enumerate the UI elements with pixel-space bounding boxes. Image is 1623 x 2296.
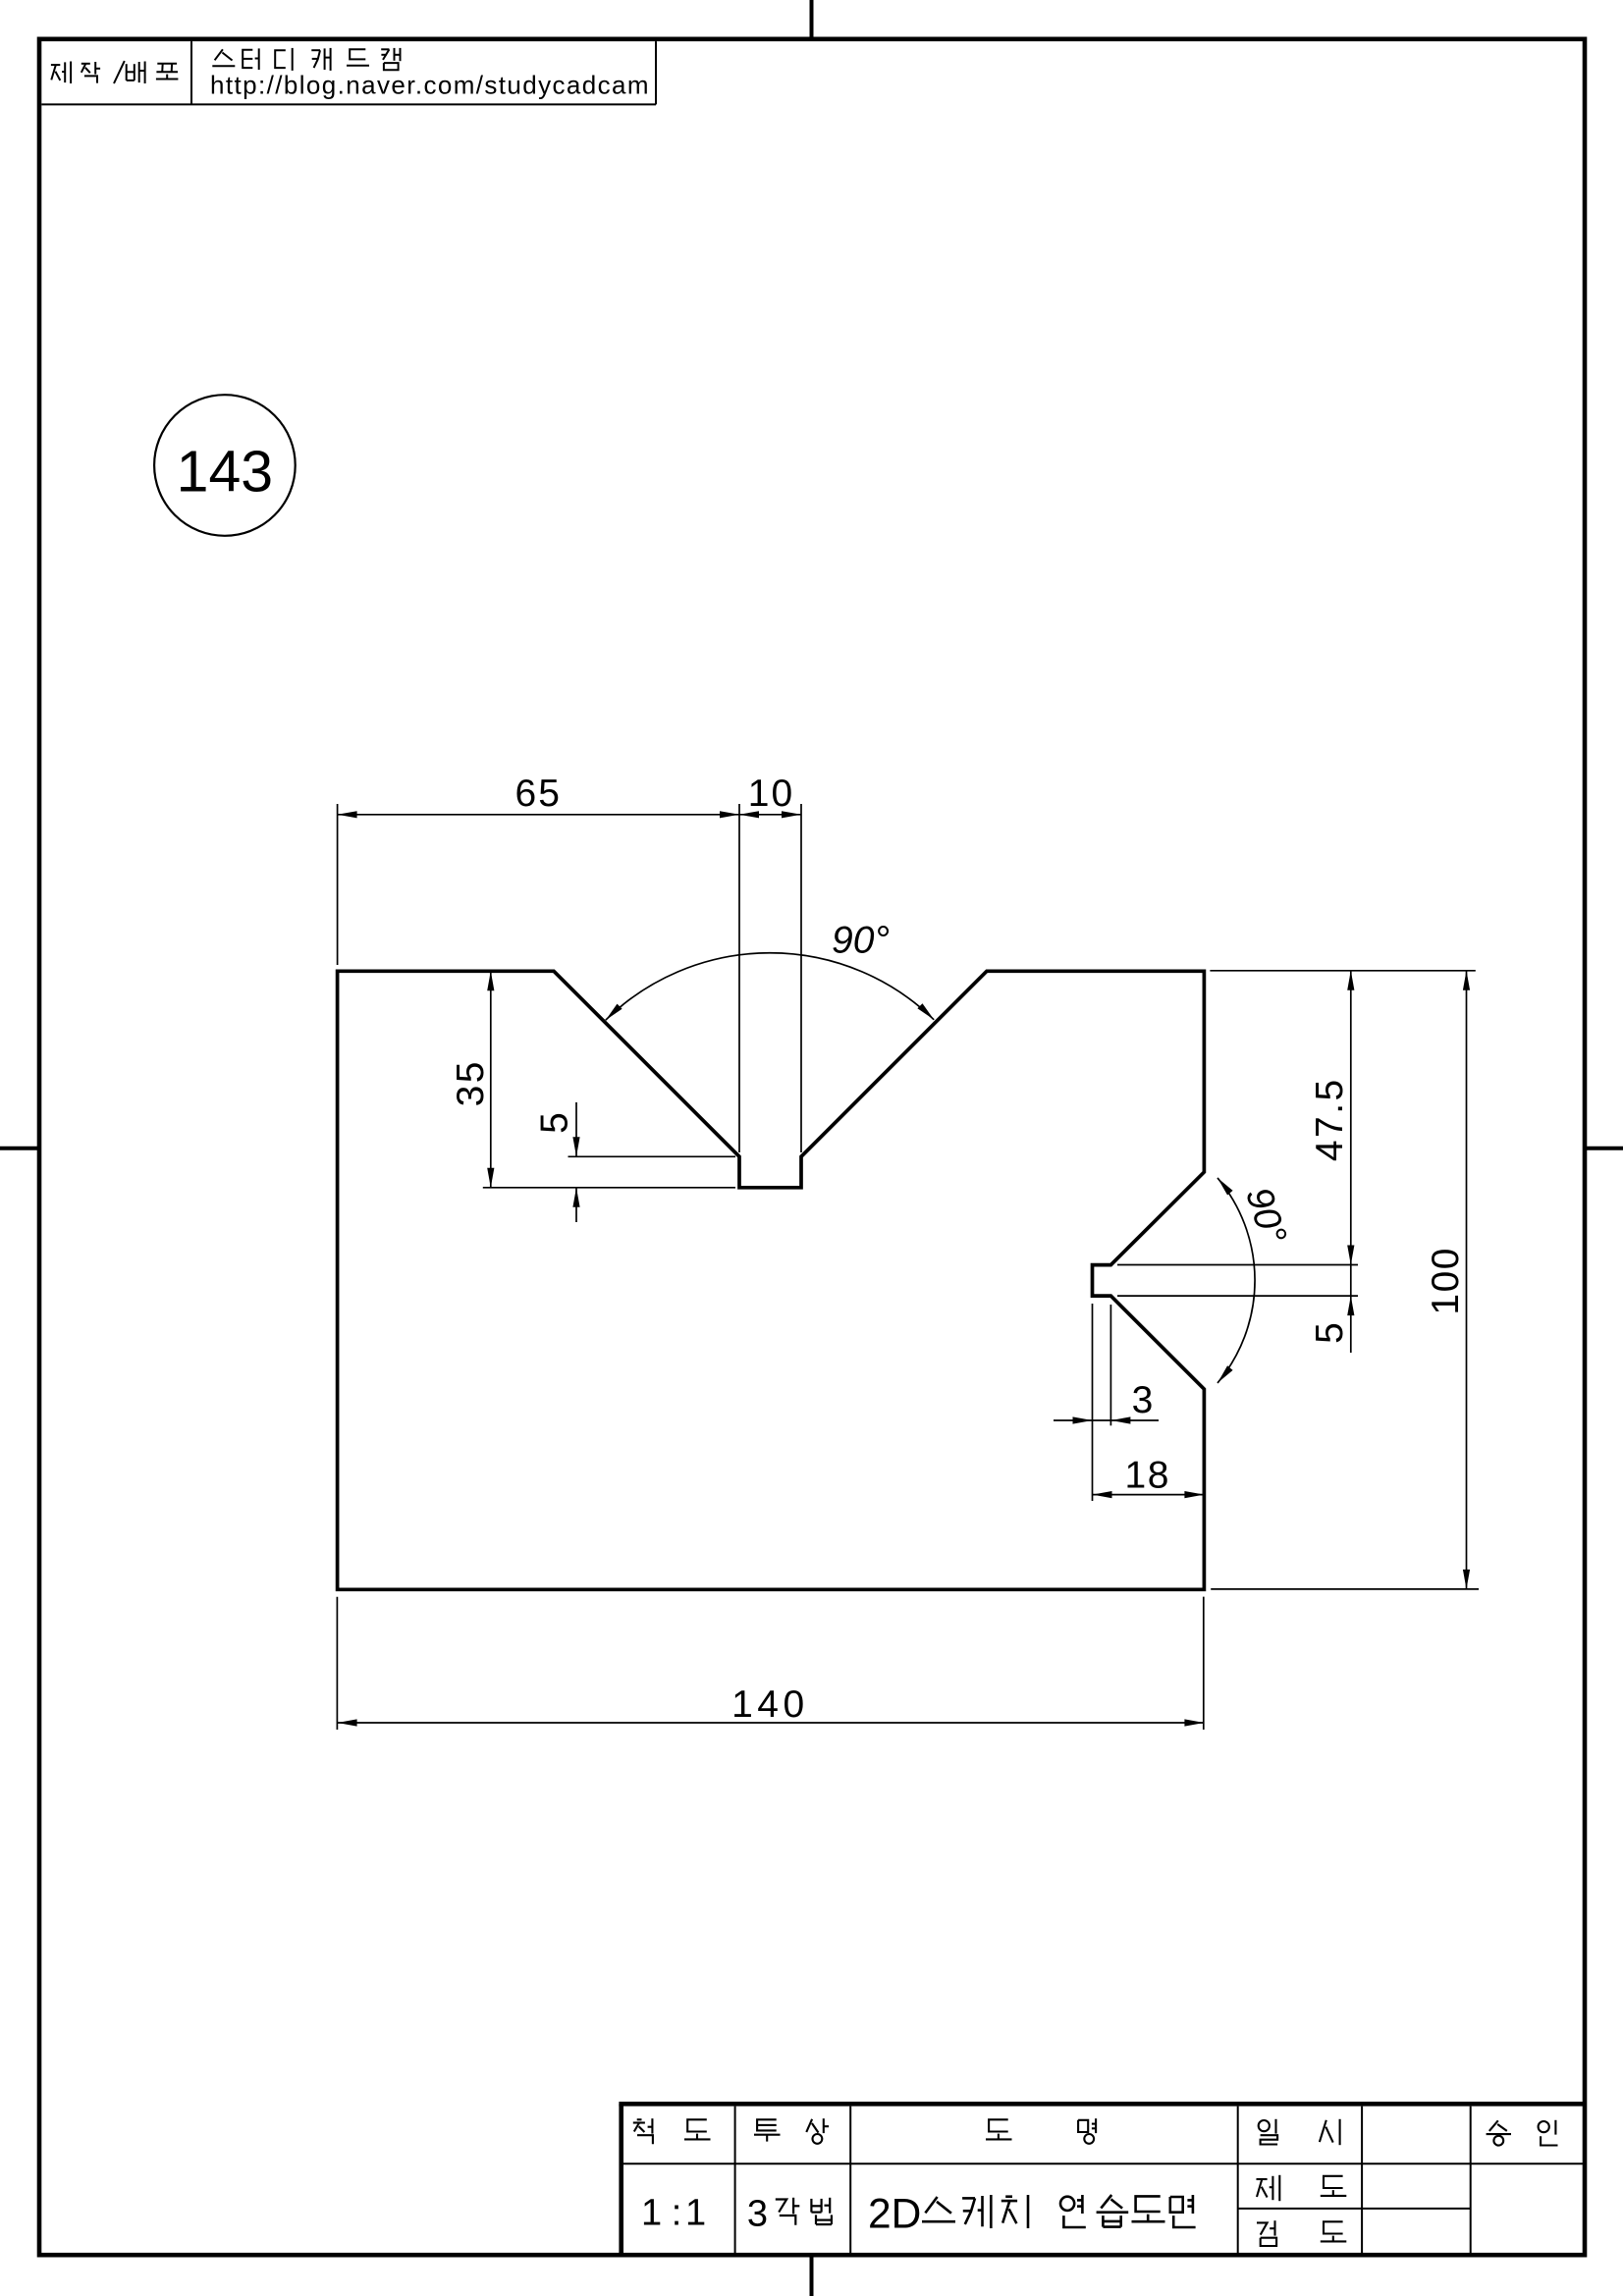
dim 3 extension lines bbox=[1093, 1304, 1111, 1501]
svg-text:35: 35 bbox=[450, 1059, 492, 1106]
dim 35 extension line bbox=[483, 1187, 735, 1189]
title block thin lines bbox=[623, 2107, 1585, 2254]
svg-text:143: 143 bbox=[177, 440, 273, 505]
text 척도 bbox=[633, 2118, 711, 2144]
dim 35 line bbox=[490, 971, 492, 1188]
dim 18 line bbox=[1093, 1494, 1205, 1496]
text 각법 bbox=[776, 2198, 832, 2225]
text 도명 bbox=[986, 2118, 1096, 2144]
text 검도 bbox=[1257, 2220, 1346, 2246]
centering tick right bbox=[1586, 1147, 1623, 1150]
dim 10 line bbox=[739, 814, 801, 816]
centering tick top bbox=[810, 0, 814, 38]
centering tick left bbox=[0, 1147, 38, 1150]
svg-text:65: 65 bbox=[515, 773, 562, 815]
svg-text:5: 5 bbox=[1309, 1322, 1351, 1344]
svg-text:18: 18 bbox=[1125, 1455, 1170, 1497]
right top extension line bbox=[1210, 970, 1475, 972]
svg-text:2D: 2D bbox=[868, 2192, 921, 2238]
svg-text:5: 5 bbox=[534, 1112, 576, 1134]
svg-text:1: 1 bbox=[685, 2193, 706, 2234]
dim 100 bottom extension bbox=[1211, 1588, 1479, 1590]
dim 5 left lines bbox=[575, 1102, 577, 1222]
text 스터디캐드캠 bbox=[212, 48, 400, 71]
svg-text:140: 140 bbox=[731, 1683, 809, 1726]
credit box lines bbox=[41, 41, 656, 104]
svg-text:3: 3 bbox=[1132, 1379, 1154, 1421]
drawing number circle bbox=[154, 395, 296, 536]
dim 65 line bbox=[338, 814, 739, 816]
svg-text:http://blog.naver.com/studycad: http://blog.naver.com/studycadcam bbox=[210, 71, 650, 100]
text 제도 bbox=[1257, 2175, 1347, 2201]
svg-text:1: 1 bbox=[641, 2193, 662, 2234]
dim 140 line bbox=[338, 1722, 1205, 1724]
notch slot extension lines bbox=[1117, 1265, 1358, 1297]
svg-text:100: 100 bbox=[1425, 1247, 1467, 1315]
dim 140 extension lines bbox=[337, 1597, 1203, 1730]
text 승인 bbox=[1487, 2120, 1558, 2146]
svg-text:90°: 90° bbox=[832, 920, 890, 962]
svg-text::: : bbox=[672, 2193, 682, 2234]
dim 47.5 line bbox=[1350, 971, 1352, 1265]
dim 90deg arc top V bbox=[606, 953, 934, 1020]
svg-text:10: 10 bbox=[748, 773, 794, 815]
text 투상 bbox=[754, 2118, 829, 2144]
centering tick bottom bbox=[810, 2256, 814, 2296]
svg-text:3: 3 bbox=[747, 2194, 768, 2235]
dim 65 extension lines bbox=[338, 804, 801, 1152]
text 스케치 연습도면 bbox=[922, 2195, 1196, 2228]
text 일시 bbox=[1259, 2119, 1340, 2145]
dim 3 line bbox=[1054, 1419, 1159, 1421]
dim 5 left extension line bbox=[568, 1155, 736, 1157]
svg-text:47.5: 47.5 bbox=[1309, 1077, 1351, 1161]
dim 5 right lines bbox=[1350, 1265, 1352, 1354]
text 제작/배포 bbox=[51, 61, 179, 83]
part outline bbox=[338, 971, 1205, 1589]
dim 90deg arc right notch bbox=[1217, 1178, 1255, 1383]
dim 100 line bbox=[1466, 971, 1468, 1589]
title block thick lines bbox=[619, 2104, 1585, 2255]
